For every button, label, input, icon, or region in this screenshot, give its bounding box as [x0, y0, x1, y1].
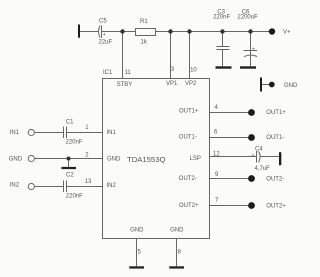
svg-text:OUT1-: OUT1- [179, 134, 197, 140]
svg-text:13: 13 [85, 179, 92, 185]
svg-text:IN2: IN2 [107, 183, 117, 189]
svg-text:IC1: IC1 [103, 70, 113, 76]
svg-text:220nF: 220nF [66, 139, 83, 145]
svg-text:220nF: 220nF [66, 194, 83, 200]
svg-text:R1: R1 [140, 19, 148, 25]
svg-text:11: 11 [125, 70, 132, 76]
svg-text:+: + [252, 46, 255, 52]
svg-text:VP1: VP1 [166, 81, 178, 87]
svg-text:OUT1+: OUT1+ [266, 110, 286, 116]
svg-text:10: 10 [190, 68, 197, 74]
svg-text:OUT2+: OUT2+ [179, 203, 199, 209]
svg-text:22uF: 22uF [99, 40, 113, 46]
svg-text:OUT1-: OUT1- [266, 135, 284, 141]
svg-text:+: + [103, 32, 106, 38]
svg-text:C2: C2 [66, 173, 74, 179]
svg-text:C1: C1 [66, 119, 74, 125]
svg-text:IN2: IN2 [10, 182, 20, 188]
svg-text:LSP: LSP [190, 156, 201, 162]
svg-text:OUT2+: OUT2+ [266, 203, 286, 209]
svg-text:STBY: STBY [117, 82, 133, 88]
svg-text:C4: C4 [255, 146, 263, 152]
svg-text:GND: GND [9, 157, 23, 163]
svg-text:V+: V+ [283, 30, 291, 36]
svg-text:+: + [252, 153, 255, 159]
svg-text:VP2: VP2 [185, 81, 197, 87]
svg-text:12: 12 [213, 152, 220, 158]
svg-text:OUT2-: OUT2- [266, 177, 284, 183]
svg-text:220nF: 220nF [213, 15, 230, 21]
svg-text:GND: GND [107, 157, 121, 163]
svg-text:C5: C5 [99, 18, 107, 24]
svg-text:IN1: IN1 [10, 130, 20, 136]
svg-text:GND: GND [170, 228, 184, 234]
svg-text:TDA1553Q: TDA1553Q [127, 155, 165, 164]
svg-text:GND: GND [130, 228, 144, 234]
svg-text:1k: 1k [141, 39, 148, 45]
svg-text:2200uF: 2200uF [237, 15, 258, 21]
svg-text:GND: GND [284, 83, 298, 89]
svg-text:OUT1+: OUT1+ [179, 109, 199, 115]
svg-text:OUT2-: OUT2- [179, 176, 197, 182]
svg-text:4,7uF: 4,7uF [255, 166, 271, 172]
svg-text:IN1: IN1 [107, 130, 117, 136]
